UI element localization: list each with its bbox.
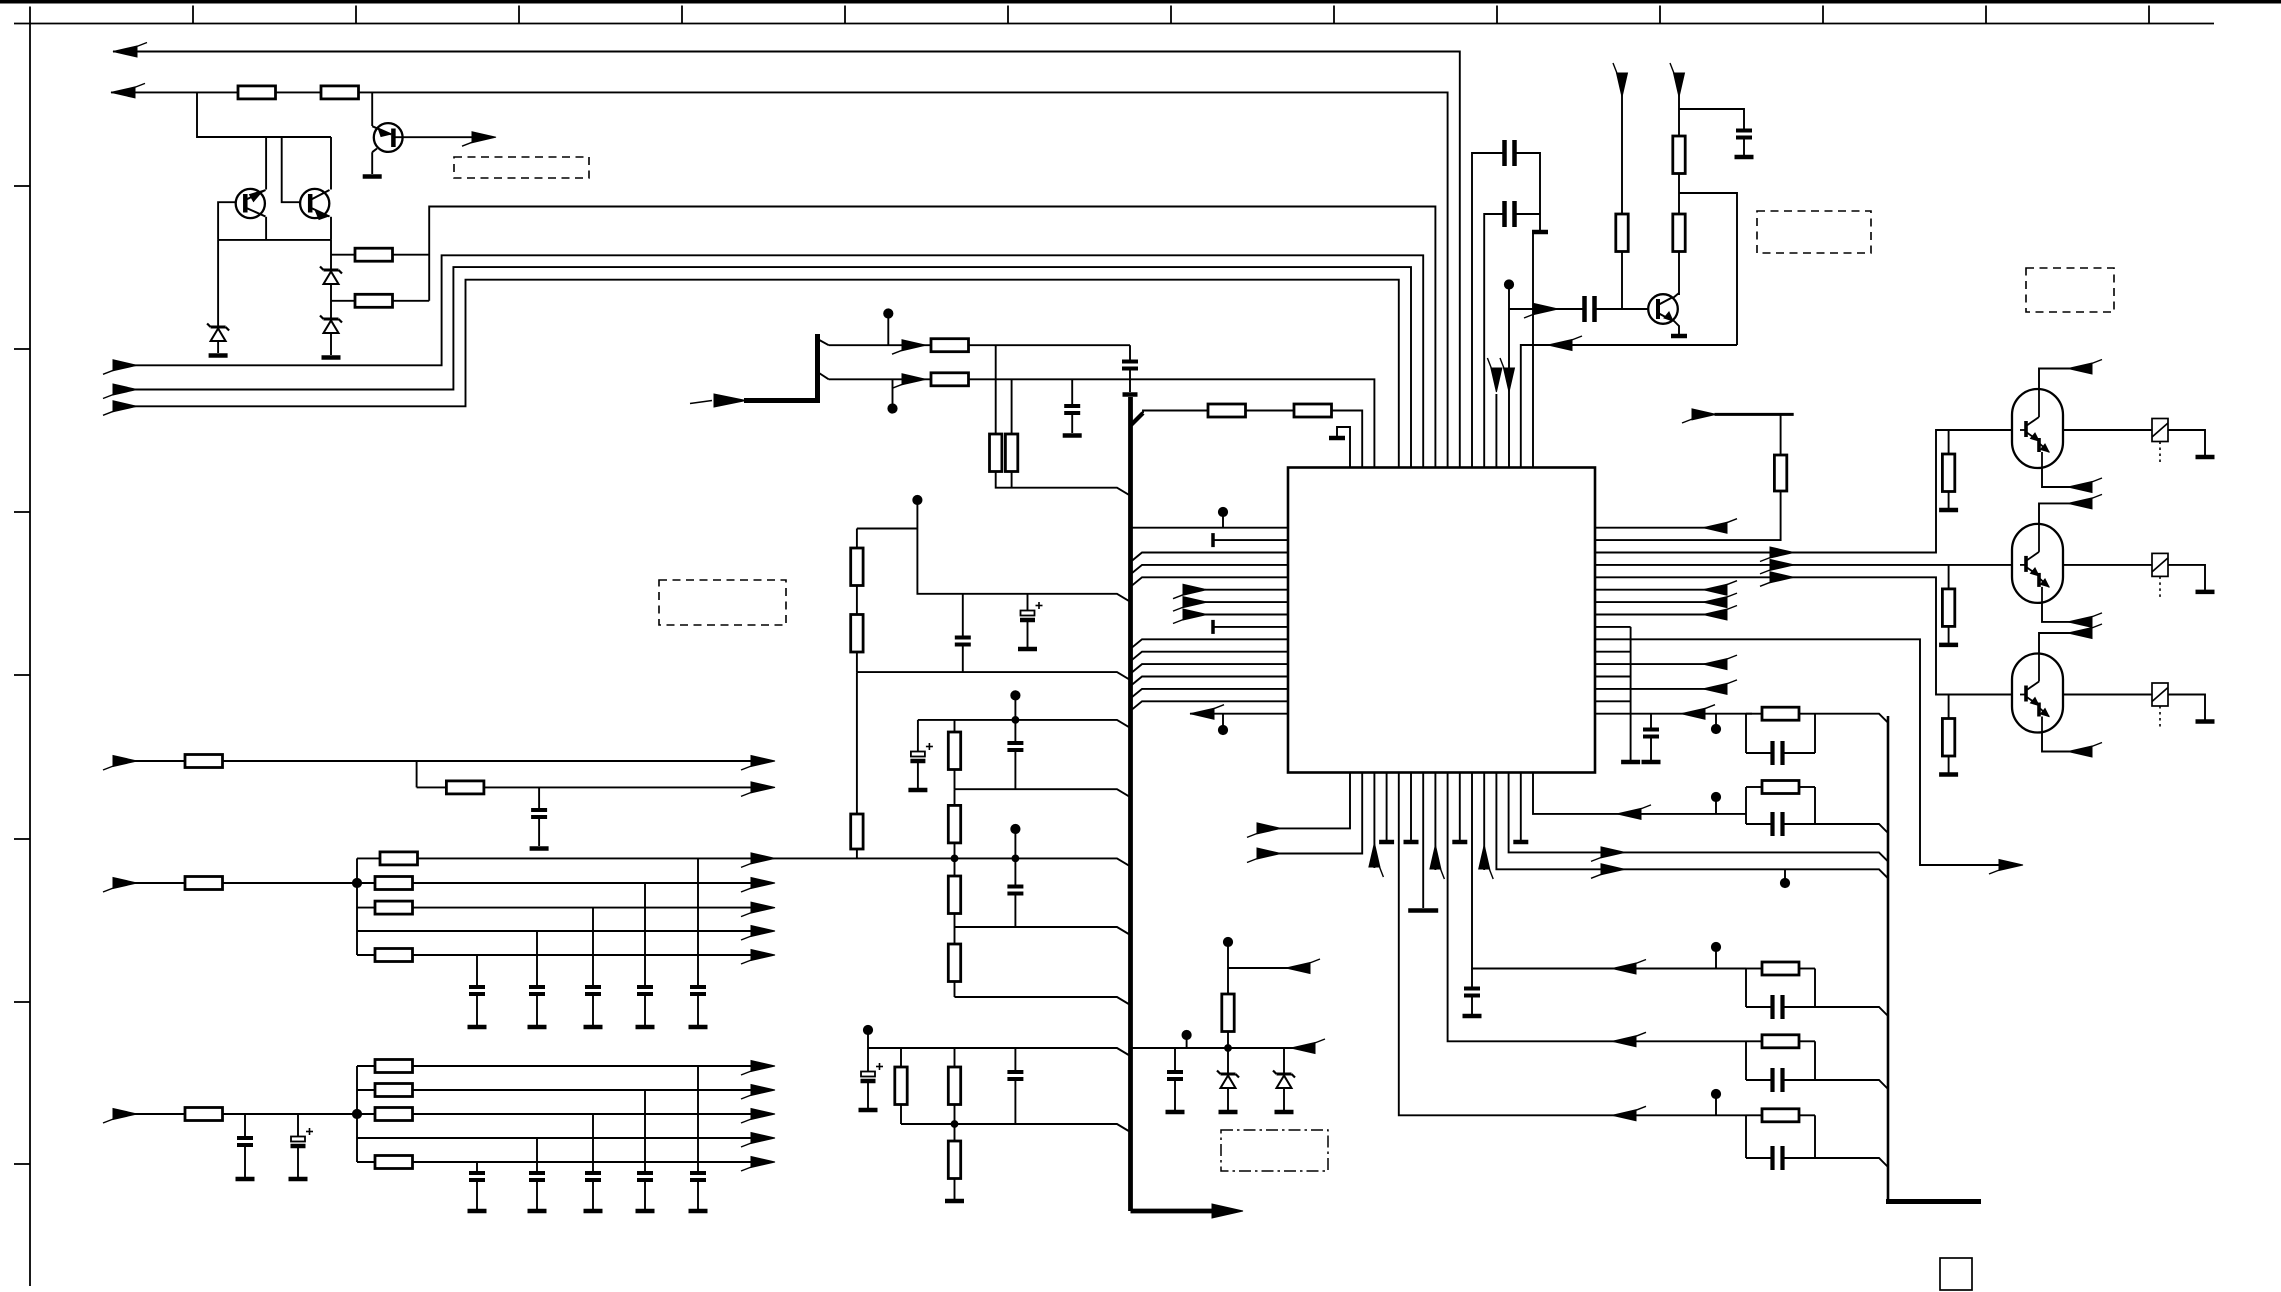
darlington driver U4 outline [2012, 654, 2063, 733]
wire B3 row y1066 [357, 1065, 772, 1067]
resistor N1R [1762, 707, 1799, 720]
wire net5 upper branch [829, 344, 1130, 346]
resistor R26 [375, 877, 413, 890]
capacitor N5C [1770, 1146, 1774, 1170]
wire C23 ground lead [476, 1180, 478, 1209]
wire C22 ground lead [536, 1180, 538, 1209]
junction dot N3 [1711, 942, 1720, 951]
ground C16 [468, 1025, 487, 1030]
relay K4 [2152, 683, 2168, 706]
wire net6 lower branch to IC pin T3 [829, 379, 1375, 467]
arrow U4 emitter [2068, 746, 2092, 757]
ground C2 [1063, 433, 1082, 438]
wire C20 lead [644, 1090, 646, 1173]
wire IC pin B6 stub [1410, 773, 1412, 841]
wire S1 to R34 [1621, 95, 1623, 214]
wire C13 ground lead [644, 994, 646, 1025]
wire C22 lead [536, 1138, 538, 1173]
ground C23 [468, 1209, 487, 1214]
wire IC pin B9 net [1448, 773, 1746, 1042]
wire C26 to ground [1743, 138, 1745, 156]
wire IC pin B2 net [1279, 773, 1362, 854]
relay K2 [2152, 419, 2168, 442]
arrow B5 net [1612, 1110, 1636, 1121]
wire R18 bottom [900, 1105, 902, 1125]
wire B3 row y1090 [357, 1089, 772, 1091]
wire R7 R8 to bus [996, 472, 1130, 496]
wire Q2 collector lead [265, 217, 267, 240]
wire N4 R row [1746, 1040, 1762, 1042]
ground Q4 emitter [1671, 334, 1687, 339]
wire R11 R12 link [856, 586, 858, 615]
wire Q2 base lead [218, 202, 236, 240]
wire N1 left leg [1745, 714, 1747, 753]
IC U1 main microcontroller [1288, 468, 1595, 773]
wire N1 exit [1815, 714, 1888, 723]
junction dot net6 [888, 404, 897, 413]
darlington driver U3 outline [2012, 524, 2063, 603]
resistor R4 [355, 294, 393, 307]
wire R13 bottom [856, 849, 858, 858]
wire B3 row y1162 [357, 1161, 772, 1163]
ground ZD1 [1219, 1110, 1238, 1115]
wire D3 to ground [330, 333, 332, 355]
resistor R5 [931, 339, 969, 352]
wire C8 bottom [867, 1082, 869, 1108]
wire B2 row5 [357, 954, 772, 956]
resistor N2R [1762, 781, 1799, 794]
ground C26 [1735, 155, 1754, 160]
capacitor C14 [585, 985, 601, 989]
wire C17 ground lead [244, 1145, 246, 1177]
capacitor C13 [637, 985, 653, 989]
arrow input A3 [113, 401, 137, 412]
resistor R29 [185, 1108, 223, 1121]
arrow IC R5 [1770, 572, 1794, 583]
wire IC L16 row out [1190, 713, 1288, 715]
wire input B1 [123, 760, 772, 762]
ground B4 [1379, 840, 1394, 845]
wire C3 link [962, 594, 964, 638]
revision box [1940, 1258, 1972, 1290]
wire net18 tap [1228, 967, 1300, 969]
arrow input B2 [113, 878, 137, 889]
arrow B11 net [1612, 963, 1636, 974]
resistor N4R [1762, 1035, 1799, 1048]
wire net2 bus line to IC pin T9 [111, 92, 1448, 467]
dashed box note4 [1757, 211, 1871, 253]
resistor R11 [851, 548, 863, 586]
ground crystal [1532, 230, 1548, 235]
junction dot net10 [1011, 691, 1020, 700]
wire input A3 to IC pin T5 [123, 280, 1399, 468]
wire C5 bottom [917, 762, 919, 788]
arrow IC R14 [1703, 683, 1727, 694]
wire net19 branch row [417, 786, 772, 788]
resistor R22 [185, 755, 223, 768]
arrow B13 net [1601, 864, 1625, 875]
wire R10 to IC pin T2 [1332, 411, 1363, 468]
wire R18 top lead [900, 1048, 902, 1067]
arrow IC R8 [1703, 609, 1727, 620]
wire C18 ground lead [297, 1147, 299, 1177]
arrow net19 end [751, 782, 775, 793]
wire IC L2 row stub [1213, 539, 1288, 541]
wire IC L13 row bus jog [1131, 677, 1288, 686]
arrow B2 row5 [751, 950, 775, 961]
wire IC R8 row [1595, 614, 1717, 616]
junction dot L1 [1218, 507, 1227, 516]
wire K4 to ground [2168, 695, 2205, 720]
wire net9 rail to bus [857, 672, 1130, 680]
capacitor C1 bus top [1122, 360, 1138, 364]
wire IC pin B15 stub [1520, 773, 1522, 841]
arrow B8 up [1430, 845, 1441, 869]
arrow IC L6 [1183, 584, 1207, 595]
arrow IC R6 [1703, 584, 1727, 595]
wire ZD1 lead [1227, 1048, 1229, 1074]
resistor R21 [1222, 994, 1234, 1032]
arrow B16 net [1617, 808, 1641, 819]
capacitor C12 [690, 985, 706, 989]
wire IC pin B3 stub [1373, 773, 1375, 869]
wire R36 to Q4 collector [1678, 252, 1680, 296]
ground ladder [1621, 760, 1640, 765]
resistor R28 [375, 949, 413, 962]
wire N2 left leg [1745, 787, 1747, 824]
arrow pin T13 down [1491, 368, 1502, 392]
arrow input A2 [113, 384, 137, 395]
wire B2 row1 [357, 857, 857, 859]
wire U4 output to relay [2063, 694, 2152, 696]
wire N3 C row [1746, 1006, 1773, 1008]
wire IC pin B5 net [1399, 773, 1746, 1116]
wire IC L14 row bus jog [1131, 689, 1288, 698]
wire N4 C row [1746, 1079, 1773, 1081]
resistor R33 [375, 1156, 413, 1169]
resistor N5R [1762, 1109, 1799, 1122]
resistor R24 [185, 877, 223, 890]
wire B1 branch drop [416, 761, 418, 787]
wire N3 R row [1746, 968, 1762, 970]
ground C29 [1463, 1014, 1482, 1019]
arrow IC R7 [1703, 597, 1727, 608]
wire IC R1 row [1595, 527, 1717, 529]
capacitor C24 [1502, 140, 1507, 166]
wire C4 bottom [1027, 621, 1029, 647]
resistor R42 [1942, 454, 1954, 492]
capacitor C17 [237, 1136, 253, 1140]
diode D1 [211, 326, 226, 329]
diode D2 [324, 269, 339, 272]
arrow base line [1534, 304, 1558, 315]
wire thick feed stub [690, 401, 712, 404]
wire net5 divider drop R7 [995, 345, 997, 434]
capacitor C29 [1464, 987, 1480, 991]
arrow B3 row y1066 [751, 1061, 775, 1072]
junction dot net12a [1011, 824, 1020, 833]
capacitor C16 [469, 985, 485, 989]
wire base line right [1595, 308, 1650, 310]
wire net11 rail to bus [955, 789, 1130, 797]
wire IC pin B4 stub [1386, 773, 1388, 841]
wire B3 fan riser [356, 1066, 358, 1162]
wire R19 top lead [954, 1048, 956, 1067]
wire diode branch right [330, 240, 332, 319]
wire R16 top lead [954, 858, 956, 876]
wire C1 to bar [1129, 369, 1131, 393]
junction dot ZD1 [1225, 1045, 1232, 1052]
wire branch diag upper [818, 339, 829, 345]
arrow IC L8 [1183, 609, 1207, 620]
wire IC L6 row input [1205, 589, 1288, 591]
wire C29 lead [1471, 969, 1473, 989]
wire U3 emitter out [2042, 603, 2085, 622]
border left tick marks [14, 185, 30, 187]
resistor N3R [1762, 962, 1799, 975]
wire IC pin T16 up [1532, 232, 1534, 468]
capacitor C9 [1007, 1070, 1023, 1074]
wire IC R11 row stub [1595, 651, 1631, 653]
ground C13 [636, 1025, 655, 1030]
arrow IC R4 [1770, 559, 1794, 570]
transistor Q4 [1648, 294, 1678, 324]
wire C28 ground lead [1650, 737, 1652, 761]
junction dot net12c [1012, 855, 1019, 862]
arrow supply S1 [1617, 73, 1628, 97]
wire IC pin T14 riser [1508, 285, 1510, 468]
wire C19 lead [697, 1066, 699, 1173]
ground C21 [584, 1209, 603, 1214]
arrow B1 out [1257, 823, 1281, 834]
ground D1 [209, 353, 228, 358]
wire IC R4 row to driver2 [1595, 564, 2012, 566]
junction dot R20 top [951, 1121, 958, 1128]
junction dot N1 [1711, 724, 1720, 733]
resistor R37 [1774, 455, 1786, 491]
ground C17 [236, 1177, 255, 1182]
wire IC R14 row out [1631, 688, 1717, 690]
wire S2 to R35 [1678, 95, 1680, 136]
arrow B2 out [1257, 848, 1281, 859]
wire cap chain to ground [1539, 214, 1541, 230]
wire C12 ground lead [697, 994, 699, 1025]
wire N2 C row [1746, 823, 1773, 825]
wire snubber1 feed cont [1746, 713, 1752, 715]
wire K2 to ground [2168, 430, 2205, 455]
wire N1 R row [1746, 713, 1762, 715]
junction R base resistor U3 [1948, 565, 1950, 589]
wire B2 row4 [357, 930, 772, 932]
arrow U3 emitter [2068, 616, 2092, 627]
dashed box note1 [454, 157, 589, 178]
wire B3 row y1138 [357, 1137, 772, 1139]
wire R16 bottom [954, 914, 956, 928]
wire C12 lead [697, 858, 699, 987]
wire C11 lead [538, 787, 540, 810]
wire IC L15 row bus jog [1131, 701, 1288, 710]
junction dot net7 [913, 495, 922, 504]
wire ZD1 ground lead [1227, 1088, 1229, 1110]
wire net4 to riser [393, 300, 430, 302]
resistor R16 [948, 876, 960, 914]
arrow supply S2 [1674, 73, 1685, 97]
wire C28 lead [1650, 714, 1652, 730]
wire net14 rail to bus [955, 997, 1130, 1005]
capacitor C22 [529, 1171, 545, 1175]
capacitor C23 [469, 1171, 485, 1175]
wire net3 R3 row [331, 254, 355, 256]
ground K2 [2196, 455, 2215, 460]
wire C18 lead [297, 1114, 299, 1137]
wire R15 bottom [954, 843, 956, 858]
ground C28 [1642, 760, 1661, 765]
wire S2 branch to C26 [1679, 109, 1744, 130]
capacitor C15 [529, 985, 545, 989]
wire IC pin T13 stub [1495, 394, 1497, 468]
wire N5 right leg [1814, 1115, 1816, 1158]
arrow input A1 [113, 360, 137, 371]
wire net7 tee left [857, 528, 918, 530]
wire Q4 emitter lead [1673, 320, 1679, 334]
ground C5 [908, 788, 927, 793]
junction dot net5 [884, 309, 893, 318]
resistor R13 [851, 814, 863, 849]
dashed box note2 [659, 580, 786, 625]
wire Q3 collector lead [330, 217, 332, 240]
ground D3 [322, 355, 341, 360]
wire C13 lead [644, 883, 646, 987]
wire R12 to rail [856, 652, 858, 672]
junction dot R14 top [1012, 717, 1019, 724]
capacitor C8 electrolytic [861, 1072, 875, 1077]
wire C14 lead [592, 908, 594, 987]
resistor R14 [948, 732, 960, 770]
wire U3 base R ground lead [1948, 626, 1950, 643]
ground ZD2 [1275, 1110, 1294, 1115]
arrow B3 up [1369, 843, 1380, 867]
wire left drop long [856, 672, 858, 814]
capacitor C28 [1643, 728, 1659, 732]
resistor R3 [355, 248, 393, 261]
wire R11 top lead [856, 529, 858, 549]
resistor R9 [1208, 404, 1246, 417]
resistor R36 [1673, 214, 1685, 252]
wire IC R6 row [1595, 589, 1717, 591]
resistor R12 [851, 615, 863, 653]
wire C11 bottom [538, 817, 540, 846]
resistor R32 [375, 1108, 413, 1121]
resistor R44 [1942, 719, 1954, 757]
capacitor N1C [1770, 741, 1774, 765]
wire C5 top lead [917, 720, 919, 751]
wire U2 base R ground lead [1948, 492, 1950, 509]
wire net15 rail to bus [868, 1048, 1130, 1056]
wire net4 R4 row [331, 300, 355, 302]
darlington driver U2 outline [2012, 389, 2063, 468]
arrow thick feed [714, 394, 746, 407]
wire R14 top lead [954, 720, 956, 732]
capacitor C19 [690, 1171, 706, 1175]
arrow B3 row y1162 [751, 1157, 775, 1168]
wire B3 row y1114 [357, 1113, 772, 1115]
arrow IC L7 [1183, 597, 1207, 608]
ground K4 [2196, 719, 2215, 724]
arrow B2 row1 [751, 853, 775, 864]
ground U3 base R [1939, 643, 1958, 648]
wire IC pin B8 stub [1434, 773, 1436, 871]
ground B15 [1513, 840, 1528, 845]
arrow B3 row y1138 [751, 1133, 775, 1144]
wire riser net3/net4 to IC pin T8 [429, 207, 1435, 468]
ground C18 [289, 1177, 308, 1182]
arrow B12 up [1479, 845, 1490, 869]
wire net5 cap drop [1129, 345, 1131, 361]
ground K3 [2196, 590, 2215, 595]
wire IC pin T12 to C25 [1484, 214, 1504, 468]
wire C3 bottom [962, 645, 964, 673]
capacitor C10 [1167, 1070, 1183, 1074]
wire IC R16 row snubber1 feed [1631, 713, 1746, 715]
wire ZD2 ground lead [1283, 1088, 1285, 1110]
arrow IC R16 [1681, 708, 1705, 719]
wire IC L5 row bus jog [1131, 577, 1288, 586]
arrow IC L16 [1190, 708, 1214, 719]
junction dot net15 [863, 1025, 872, 1034]
ground C20 [636, 1209, 655, 1214]
wire R17 top lead [954, 927, 956, 944]
wire U2 collector out [2039, 369, 2085, 390]
ground pin T1 [1329, 436, 1345, 441]
junction dot B13 net [1780, 878, 1789, 887]
wire net13 rail to bus [955, 927, 1130, 935]
ground C11 [530, 846, 549, 851]
arrow U2 emitter [2068, 482, 2092, 493]
arrow net2 left [111, 87, 135, 98]
capacitor C11 [531, 808, 547, 812]
resistor R2 on net2 [321, 86, 359, 99]
junction dot N2 [1711, 792, 1720, 801]
wire C15 ground lead [536, 994, 538, 1025]
ground B7 [1408, 908, 1438, 913]
wire IC R15 row stub [1595, 700, 1631, 702]
wire C7 bottom [1014, 894, 1016, 928]
capacitor C20 [637, 1171, 653, 1175]
wire net17 zener rail [1132, 1047, 1305, 1049]
wire Q1 base from net2 [371, 92, 373, 126]
ground C22 [528, 1209, 547, 1214]
junction dot B2 [352, 878, 361, 887]
wire N4 left leg [1745, 1041, 1747, 1080]
junction dot B3 [352, 1109, 361, 1118]
capacitor C5 electrolytic [911, 752, 925, 757]
wire N5 left leg [1745, 1115, 1747, 1158]
arrow bus bottom [1212, 1204, 1243, 1218]
wire B2 row2 [357, 882, 772, 884]
wire C9 bottom [1014, 1079, 1016, 1124]
diode D3 [324, 318, 339, 321]
resistor R43 [1942, 589, 1954, 627]
resistor R10 [1294, 404, 1332, 417]
wire IC L7 row input [1205, 601, 1288, 603]
ground C4 [1018, 647, 1037, 652]
arrow IC R1 [1703, 522, 1727, 533]
wire N4 exit [1815, 1080, 1888, 1089]
wire R9 R10 link [1246, 410, 1295, 412]
wire Q2Q3 supply drop [197, 92, 331, 137]
wire D1 to ground [217, 341, 219, 353]
wire N5 exit [1815, 1158, 1888, 1167]
